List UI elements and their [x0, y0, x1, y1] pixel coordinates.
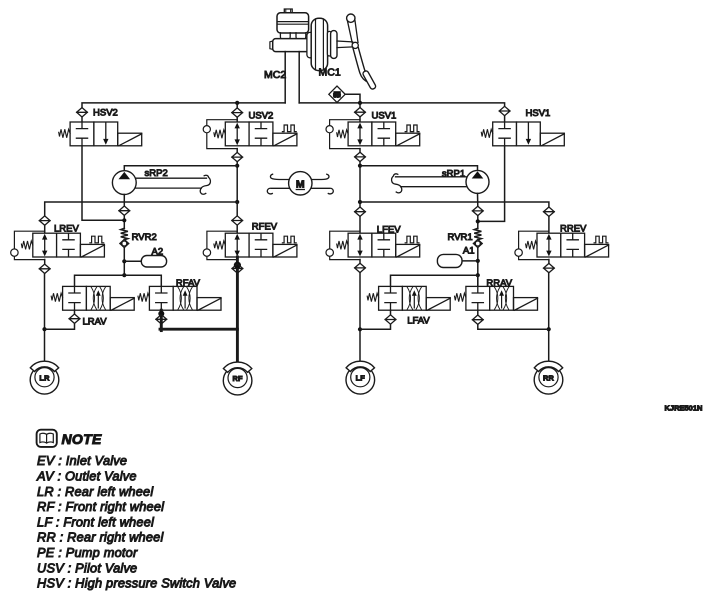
- filter: [69, 314, 80, 323]
- node left bus / USV2: [235, 101, 239, 105]
- valve RREV: [515, 231, 609, 259]
- wire: [236, 225, 238, 233]
- filter: [544, 263, 555, 272]
- wire HSV2 down to pump return: [82, 146, 124, 221]
- wire: [548, 216, 550, 233]
- wire: [44, 225, 46, 233]
- wheel RF: [223, 362, 252, 395]
- node LFAV joins: [358, 327, 362, 331]
- wire: [123, 248, 125, 275]
- svg-text:MC1: MC1: [319, 67, 341, 79]
- filter: [472, 315, 483, 324]
- wire LFEV to LF wheel: [359, 273, 361, 362]
- svg-text:PE : Pump motor: PE : Pump motor: [37, 545, 138, 560]
- accumulator A2: [141, 256, 166, 268]
- svg-text:A2: A2: [152, 246, 164, 257]
- svg-text:HSV2: HSV2: [93, 108, 118, 119]
- svg-text:RR : Rear right wheel: RR : Rear right wheel: [37, 530, 164, 545]
- wire to A2: [124, 260, 141, 262]
- filter: [499, 106, 510, 115]
- valve RFEV: [203, 231, 297, 259]
- legend: [36, 453, 236, 590]
- filter: [355, 108, 366, 117]
- wire: [548, 260, 550, 264]
- wire RREV to RR wheel: [548, 273, 550, 361]
- wire: [236, 162, 238, 202]
- filter: [119, 206, 130, 215]
- svg-text:USV2: USV2: [249, 110, 274, 121]
- svg-text:EV : Inlet Valve: EV : Inlet Valve: [37, 453, 127, 468]
- wire pump sRP2 outlet: [124, 166, 237, 171]
- node pump sRP2 outlet: [235, 164, 239, 168]
- filter: [39, 216, 50, 225]
- restrictor RVR2: [121, 228, 128, 240]
- node: [234, 262, 241, 269]
- wire: [236, 202, 238, 216]
- wire: [359, 216, 361, 233]
- wire return manifold (energized path): [160, 328, 237, 331]
- brake fluid reservoir: [277, 13, 309, 33]
- wire pump sRP1 outlet: [360, 166, 478, 171]
- brake pedal: [347, 14, 377, 90]
- svg-text:M: M: [296, 179, 305, 191]
- valve USV1: [326, 120, 420, 149]
- wire: [359, 149, 361, 153]
- node LRAV joins: [42, 327, 46, 331]
- svg-text:NOTE: NOTE: [62, 431, 102, 447]
- wire AV feed right to RFAV: [124, 275, 161, 286]
- wire damper bypass: [345, 94, 360, 103]
- filter: [232, 264, 243, 273]
- svg-text:LR: LR: [39, 373, 50, 382]
- node HSV2 return joins: [122, 218, 126, 222]
- svg-text:KJRE501N: KJRE501N: [665, 404, 703, 413]
- svg-text:MC2: MC2: [264, 69, 286, 81]
- wheel LR: [30, 361, 59, 394]
- node: [158, 311, 164, 317]
- wire: [477, 216, 479, 229]
- wire LREV to LR wheel: [44, 274, 46, 362]
- wire: [74, 310, 76, 314]
- wire: [236, 117, 238, 122]
- wire right bus: [299, 103, 504, 106]
- svg-text:UP: UP: [333, 93, 341, 99]
- valve LFAV: [367, 286, 450, 310]
- svg-text:sRP2: sRP2: [145, 168, 168, 179]
- filter: [355, 207, 366, 216]
- wire RFEV to RF wheel (energized path): [236, 257, 239, 361]
- wire: [359, 260, 361, 264]
- svg-text:RVR1: RVR1: [448, 232, 473, 243]
- motor left cam: [267, 174, 289, 194]
- wire left lower bus: [45, 202, 238, 216]
- filter: [77, 108, 88, 117]
- svg-text:RVR2: RVR2: [132, 232, 157, 243]
- wire: [44, 260, 46, 265]
- wire right lower bus: [360, 202, 549, 207]
- filter: [156, 315, 167, 324]
- booster pushrod: [337, 41, 353, 48]
- node A1 tap: [476, 259, 480, 263]
- filter: [472, 206, 483, 215]
- wire: [236, 103, 238, 108]
- filter: [232, 152, 243, 161]
- valve LRAV: [51, 286, 134, 310]
- wire: [359, 162, 361, 202]
- svg-text:sRP1: sRP1: [442, 168, 465, 179]
- node RRAV joins: [547, 327, 551, 331]
- svg-text:A1: A1: [463, 245, 475, 256]
- node AV feed: [476, 273, 480, 277]
- accumulator A1: [437, 254, 462, 267]
- reservoir ports: [280, 33, 305, 41]
- filter: [544, 207, 555, 216]
- svg-text:HSV1: HSV1: [526, 108, 551, 119]
- node AV feed: [122, 273, 126, 277]
- valve HSV2: [59, 122, 142, 146]
- node right bus / USV1: [358, 101, 362, 105]
- svg-text:LREV: LREV: [54, 223, 79, 234]
- wire: [477, 248, 479, 287]
- svg-text:RRAV: RRAV: [486, 278, 512, 289]
- wire: [81, 117, 83, 122]
- svg-text:HSV : High pressure Switch Val: HSV : High pressure Switch Valve: [37, 576, 236, 591]
- check filter: [120, 239, 129, 247]
- wire: [504, 116, 506, 122]
- motor M: [289, 172, 312, 195]
- node HSV1 return joins: [476, 219, 480, 223]
- wire LFAV to LF line: [360, 324, 391, 329]
- pump sRP2 drive bar: [136, 175, 210, 194]
- filter: [355, 263, 366, 272]
- svg-text:LFEV: LFEV: [377, 224, 401, 235]
- svg-text:LRAV: LRAV: [83, 316, 108, 327]
- svg-text:USV1: USV1: [372, 110, 397, 121]
- svg-text:RREV: RREV: [560, 224, 587, 235]
- valve LREV: [11, 231, 105, 259]
- wire: [236, 149, 238, 153]
- node A2 tap: [122, 259, 126, 263]
- wire: [359, 117, 361, 122]
- valve HSV1: [481, 122, 564, 146]
- wire RRAV to RR line: [478, 324, 549, 329]
- svg-text:RFEV: RFEV: [252, 222, 278, 233]
- master cylinder body MC: [270, 39, 311, 52]
- filter: [232, 216, 243, 225]
- reservoir cap: [284, 9, 292, 13]
- motor right cam: [312, 174, 334, 194]
- check filter: [473, 239, 482, 247]
- filter: [232, 108, 243, 117]
- wire: [390, 310, 392, 315]
- filter: [355, 152, 366, 161]
- pump sRP2: [112, 171, 136, 195]
- wire RFAV to RF line (energized path): [160, 310, 163, 330]
- wheel RR: [534, 361, 563, 394]
- wire: [477, 310, 479, 315]
- svg-text:LR : Rear left wheel: LR : Rear left wheel: [37, 484, 154, 499]
- filter: [385, 315, 396, 324]
- wire left bus: [82, 103, 285, 108]
- vacuum booster: [307, 18, 337, 70]
- restrictor RVR1: [474, 228, 481, 240]
- wire AV feed left to LFAV: [391, 275, 478, 286]
- svg-text:AV : Outlet Valve: AV : Outlet Valve: [36, 469, 137, 484]
- svg-text:RFAV: RFAV: [176, 278, 201, 289]
- wire LRAV to LR line: [45, 323, 75, 329]
- wire: [123, 215, 125, 228]
- svg-text:RF: RF: [232, 374, 243, 383]
- wire RRAV feed: [477, 275, 479, 286]
- valve RFAV: [138, 286, 221, 310]
- wire: [359, 202, 361, 207]
- pump sRP1: [466, 170, 489, 193]
- wheel LF: [346, 361, 375, 394]
- wire AV feed left to LRAV: [75, 275, 125, 286]
- damper UP: [329, 86, 345, 102]
- node right lower bus: [358, 200, 362, 204]
- valve LFEV: [326, 231, 420, 259]
- svg-text:RR: RR: [543, 373, 555, 382]
- node pump sRP1 outlet: [358, 164, 362, 168]
- wire: [359, 103, 361, 108]
- wire pump sRP2 inlet: [123, 195, 125, 207]
- wire HSV1 down to pump return: [478, 146, 505, 222]
- svg-text:LF : Front left wheel: LF : Front left wheel: [37, 514, 155, 529]
- svg-text:LF: LF: [356, 373, 366, 382]
- wire MC1 down: [298, 52, 300, 103]
- svg-text:RF : Front right wheel: RF : Front right wheel: [37, 499, 165, 514]
- valve RRAV: [455, 286, 538, 310]
- node left lower bus: [235, 200, 239, 204]
- svg-text:USV : Pilot Valve: USV : Pilot Valve: [37, 560, 137, 575]
- note icon: [37, 430, 57, 447]
- wire to A1: [462, 260, 478, 262]
- wire MC2 down: [284, 52, 286, 103]
- pump sRP1 drive bar: [392, 174, 466, 193]
- filter: [39, 264, 50, 273]
- valve USV2: [203, 120, 297, 149]
- svg-text:LFAV: LFAV: [407, 315, 430, 326]
- wire pump sRP1 inlet: [477, 193, 479, 206]
